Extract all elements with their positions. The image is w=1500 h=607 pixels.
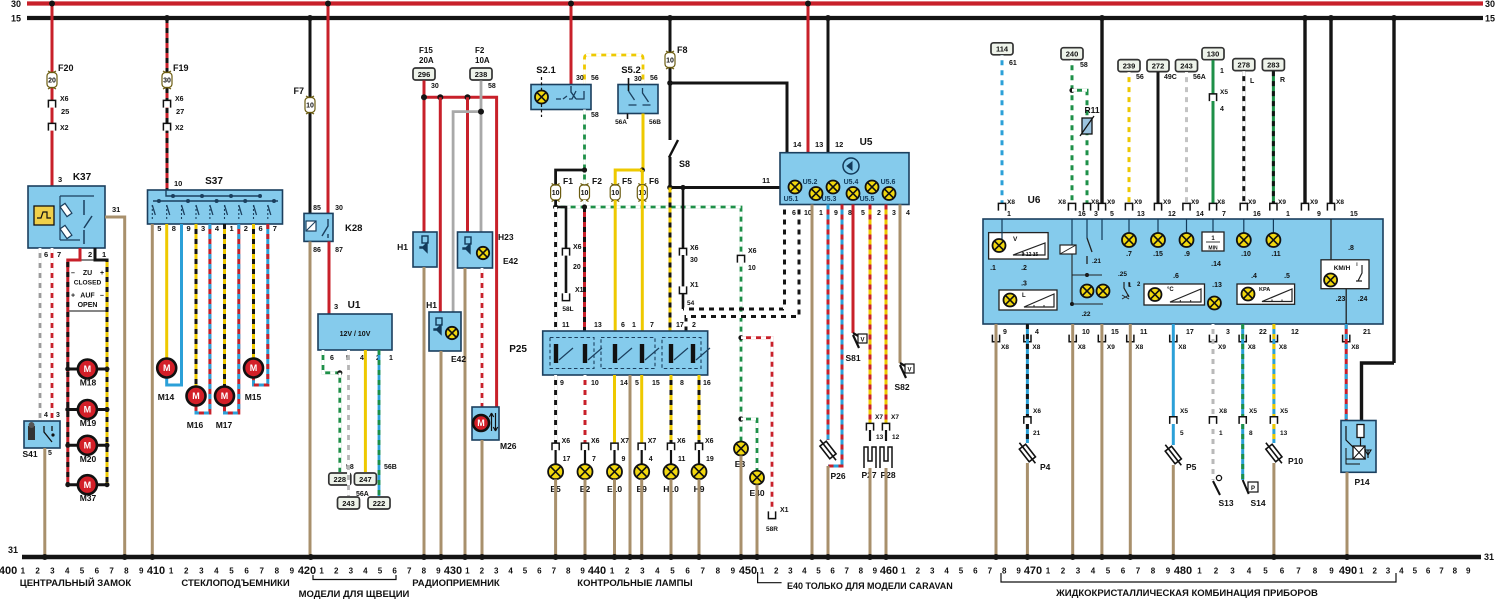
svg-text:30: 30	[690, 257, 698, 264]
lamp E10	[613, 375, 616, 443]
svg-text:6: 6	[830, 567, 835, 576]
svg-text:11: 11	[1140, 329, 1148, 336]
svg-text:F20: F20	[58, 63, 74, 73]
svg-text:H1: H1	[426, 300, 437, 310]
svg-text:X9: X9	[1248, 199, 1256, 206]
fuse F20	[47, 71, 57, 89]
svg-text:1: 1	[102, 250, 106, 259]
svg-text:E42: E42	[503, 256, 518, 266]
lamp .13	[1208, 297, 1221, 310]
svg-text:56: 56	[1136, 74, 1144, 81]
svg-text:1: 1	[819, 210, 823, 217]
svg-text:3: 3	[930, 567, 935, 576]
switch S8	[669, 140, 678, 158]
svg-text:P26: P26	[830, 471, 845, 481]
U5 indicator lamps	[789, 181, 802, 194]
svg-text:14: 14	[1196, 211, 1204, 218]
svg-text:5: 5	[1180, 430, 1184, 437]
svg-text:S14: S14	[1250, 498, 1265, 508]
svg-text:X8: X8	[1007, 199, 1015, 206]
svg-text:F2: F2	[475, 46, 485, 55]
svg-text:X6: X6	[690, 245, 699, 252]
svg-text:480: 480	[1174, 565, 1192, 577]
svg-text:1: 1	[1046, 567, 1051, 576]
bracket E40 caravan	[758, 572, 782, 583]
svg-text:U5.3: U5.3	[822, 196, 837, 203]
svg-text:ЦЕНТРАЛЬНЫЙ ЗАМОК: ЦЕНТРАЛЬНЫЙ ЗАМОК	[20, 577, 132, 589]
svg-text:49C: 49C	[1164, 74, 1177, 81]
svg-text:9: 9	[1466, 567, 1471, 576]
wire S37 pin8 to M14	[165, 224, 168, 359]
svg-text:X9: X9	[1134, 199, 1142, 206]
svg-text:17: 17	[1186, 329, 1194, 336]
svg-text:7: 7	[1439, 567, 1444, 576]
svg-text:P28: P28	[880, 470, 895, 480]
connector X2 (F20)	[48, 123, 55, 130]
svg-text:U6: U6	[1028, 195, 1041, 206]
svg-text:8: 8	[275, 567, 280, 576]
svg-text:K28: K28	[345, 223, 362, 234]
svg-text:10: 10	[611, 190, 619, 197]
svg-text:X9: X9	[1278, 199, 1286, 206]
svg-text:5: 5	[523, 567, 528, 576]
svg-text:4: 4	[1399, 567, 1404, 576]
svg-text:X9: X9	[1218, 344, 1226, 351]
svg-text:56: 56	[591, 75, 599, 82]
svg-text:P4: P4	[1040, 462, 1051, 472]
wire H1 to ground	[423, 267, 426, 557]
svg-text:РАДИОПРИЕМНИК: РАДИОПРИЕМНИК	[412, 578, 500, 589]
svg-text:1: 1	[169, 567, 174, 576]
svg-text:10: 10	[306, 103, 314, 110]
svg-text:2: 2	[774, 567, 779, 576]
wire F7 feed	[309, 18, 312, 213]
svg-text:X9: X9	[1107, 199, 1115, 206]
svg-text:4: 4	[906, 210, 910, 217]
svg-text:V: V	[860, 338, 864, 344]
svg-text:M15: M15	[245, 392, 262, 402]
svg-text:6: 6	[44, 250, 48, 259]
svg-text:X8: X8	[1135, 344, 1143, 351]
svg-text:СТЕКЛОПОДЪЕМНИКИ: СТЕКЛОПОДЪЕМНИКИ	[181, 578, 289, 589]
svg-text:X8: X8	[1279, 344, 1287, 351]
wire K28 pin87 to U1	[328, 242, 331, 315]
svg-text:M: M	[477, 418, 485, 428]
svg-text:X6: X6	[677, 438, 686, 445]
svg-text:7: 7	[109, 567, 114, 576]
wire tag 130 to U6 pin7	[1202, 48, 1224, 60]
svg-text:X9: X9	[1163, 199, 1171, 206]
svg-text:20: 20	[48, 78, 56, 85]
svg-text:9: 9	[1317, 211, 1321, 218]
svg-text:3: 3	[1094, 211, 1098, 218]
svg-text:56B: 56B	[649, 119, 661, 126]
wire U1 pin4	[364, 350, 367, 472]
wire F2 (radio)	[480, 81, 483, 233]
svg-text:400: 400	[0, 565, 17, 577]
wire E42 to ground	[440, 351, 443, 557]
svg-text:X2: X2	[60, 125, 69, 132]
svg-text:1: 1	[1286, 211, 1290, 218]
svg-text:AUF: AUF	[80, 293, 95, 300]
wire S37 pin7 / M15 loop	[254, 224, 268, 385]
wire U1 pin6	[323, 350, 340, 373]
antenna motor M26	[472, 407, 499, 440]
switch S81	[853, 333, 860, 348]
svg-text:X6: X6	[748, 248, 757, 255]
svg-text:.9: .9	[1184, 251, 1190, 258]
wire U6 pin11 to ground	[1129, 324, 1132, 557]
svg-text:U5.2: U5.2	[803, 179, 818, 186]
svg-text:4: 4	[944, 567, 949, 576]
fuse F5	[610, 184, 620, 202]
wire bus30 to U5 pin13	[807, 4, 810, 153]
voltage transformer U1 12V/10V	[318, 314, 392, 350]
svg-text:F8: F8	[677, 45, 688, 55]
svg-text:9: 9	[622, 456, 626, 463]
svg-text:ЖИДКОКРИСТАЛЛИЧЕСКАЯ КОМБИНАЦИ: ЖИДКОКРИСТАЛЛИЧЕСКАЯ КОМБИНАЦИЯ ПРИБОРОВ	[1055, 588, 1318, 599]
svg-text:S37: S37	[205, 176, 223, 187]
svg-text:2: 2	[88, 250, 92, 259]
svg-text:5: 5	[1110, 211, 1114, 218]
svg-text:.10: .10	[1241, 251, 1251, 258]
relay K28	[327, 4, 330, 214]
tag 243	[338, 497, 360, 509]
wire U5 pin3 to P28	[885, 205, 888, 425]
svg-text:H1: H1	[397, 242, 408, 252]
svg-text:450: 450	[739, 565, 757, 577]
svg-text:8: 8	[124, 567, 129, 576]
bus 30 (battery +)	[27, 1, 1483, 5]
svg-text:P14: P14	[1354, 477, 1369, 487]
svg-text:E42: E42	[451, 354, 466, 364]
svg-text:7: 7	[700, 567, 705, 576]
svg-text:15: 15	[1485, 14, 1495, 24]
svg-text:L: L	[1022, 293, 1026, 299]
svg-text:F5: F5	[622, 176, 632, 186]
relay .21/.22/.25 cluster	[1071, 219, 1073, 245]
svg-text:P25: P25	[509, 344, 527, 355]
wire U5 pin5 to S81	[852, 205, 855, 334]
wire tag 278 to U6 pin16b	[1233, 59, 1255, 71]
svg-text:M37: M37	[80, 493, 97, 503]
motor M17	[215, 387, 234, 406]
svg-text:M: M	[84, 405, 92, 415]
svg-text:+: +	[100, 270, 104, 277]
svg-text:U5.1: U5.1	[784, 196, 799, 203]
svg-text:12: 12	[1291, 329, 1299, 336]
wire F15 distribution	[423, 81, 426, 233]
frame ZU/CLOSED AUF/OPEN	[67, 260, 108, 311]
svg-text:9: 9	[580, 567, 585, 576]
svg-text:4: 4	[44, 412, 48, 419]
wire H23 to ground	[464, 268, 467, 557]
svg-text:58R: 58R	[766, 526, 778, 533]
svg-text:S41: S41	[22, 449, 37, 459]
svg-text:6: 6	[792, 210, 796, 217]
wire F19 feed	[166, 18, 169, 190]
temp sensor P4	[1016, 440, 1038, 465]
svg-text:1: 1	[901, 567, 906, 576]
svg-text:238: 238	[475, 70, 488, 79]
svg-text:1: 1	[1219, 430, 1223, 437]
svg-text:86: 86	[313, 247, 321, 254]
svg-text:8: 8	[1453, 567, 1458, 576]
svg-text:X6: X6	[175, 96, 184, 103]
svg-text:4: 4	[214, 567, 219, 576]
svg-text:3: 3	[334, 302, 338, 311]
svg-text:19: 19	[706, 456, 714, 463]
speaker H1 front	[413, 232, 437, 267]
svg-text:20: 20	[573, 264, 581, 271]
svg-text:7: 7	[552, 567, 557, 576]
motor M37	[68, 483, 107, 486]
svg-text:F2: F2	[592, 176, 602, 186]
svg-text:3: 3	[1386, 567, 1391, 576]
fuse F7	[305, 96, 315, 114]
wire U6 pin4 to P4	[1026, 324, 1029, 416]
svg-text:S8: S8	[679, 159, 690, 169]
tag 228	[329, 473, 351, 485]
svg-text:9 12 15: 9 12 15	[1022, 252, 1039, 258]
svg-text:30: 30	[1485, 0, 1495, 9]
connector X6 (F19)	[163, 100, 170, 107]
svg-text:7: 7	[57, 250, 61, 259]
connector X6 (F20)	[48, 100, 55, 107]
svg-text:440: 440	[588, 565, 606, 577]
wire S37 pin4 / M16 loop	[196, 224, 210, 413]
svg-text:9: 9	[1003, 329, 1007, 336]
svg-text:30: 30	[634, 76, 642, 83]
svg-text:6: 6	[244, 567, 249, 576]
svg-text:2: 2	[692, 322, 696, 329]
svg-text:X5: X5	[1180, 408, 1188, 415]
svg-text:M20: M20	[80, 454, 97, 464]
wire U5 pin1 to ground	[811, 205, 814, 558]
wire U1 pin2	[378, 350, 381, 496]
svg-text:X1: X1	[575, 287, 584, 294]
svg-text:8: 8	[422, 567, 427, 576]
svg-text:X8: X8	[1248, 344, 1256, 351]
coolant sensor P26	[817, 437, 839, 462]
svg-text:P10: P10	[1288, 456, 1303, 466]
svg-text:2: 2	[1061, 567, 1066, 576]
svg-text:5: 5	[670, 567, 675, 576]
gauge .1/.2 voltmeter	[989, 233, 1049, 259]
svg-text:470: 470	[1024, 565, 1042, 577]
svg-text:OPEN: OPEN	[78, 302, 98, 309]
svg-text:2: 2	[184, 567, 189, 576]
svg-text:9: 9	[834, 210, 838, 217]
instrument cluster U6	[983, 219, 1383, 324]
wire K37 pin1 (open) rail	[95, 248, 107, 268]
svg-text:X8: X8	[1351, 344, 1359, 351]
fuse F2 (instr)	[580, 184, 590, 202]
svg-text:.1: .1	[990, 265, 996, 272]
wire P25 pin5 to ground	[629, 375, 632, 557]
svg-text:X8: X8	[1001, 344, 1009, 351]
svg-text:283: 283	[1267, 60, 1280, 69]
svg-text:10: 10	[591, 380, 599, 387]
svg-text:X5: X5	[1220, 89, 1228, 96]
wire S37 pin3 to M16	[195, 224, 198, 387]
svg-text:13: 13	[1137, 211, 1145, 218]
svg-text:U1: U1	[348, 300, 361, 311]
wire tag 272 to U6 pin12	[1147, 60, 1169, 72]
svg-text:X7: X7	[621, 438, 630, 445]
oil pressure sensor P5	[1162, 442, 1184, 467]
svg-text:X8: X8	[1336, 199, 1344, 206]
svg-text:L: L	[1250, 78, 1255, 85]
connector X7 (P27)	[866, 423, 873, 430]
svg-text:7: 7	[844, 567, 849, 576]
svg-text:25: 25	[61, 107, 69, 116]
svg-text:M: M	[84, 364, 92, 374]
svg-text:P: P	[1251, 486, 1255, 492]
svg-text:11: 11	[762, 176, 770, 185]
svg-text:5: 5	[861, 210, 865, 217]
svg-text:13: 13	[594, 322, 602, 329]
svg-text:272: 272	[1152, 61, 1165, 70]
svg-text:X6: X6	[60, 96, 69, 103]
svg-text:X5: X5	[1249, 408, 1257, 415]
svg-text:2: 2	[1372, 567, 1377, 576]
wire U6 pin9 to ground	[995, 324, 998, 557]
svg-text:–: –	[71, 270, 75, 277]
wire U6 pin22 to S14	[1241, 324, 1244, 416]
connector stub X6-30 / X1-54	[682, 188, 685, 251]
svg-text:MIN: MIN	[1208, 246, 1218, 252]
svg-text:15: 15	[1111, 329, 1119, 336]
gauge .6 coolant temp	[1144, 284, 1205, 305]
wire S41 to ground	[43, 448, 46, 557]
motor M16	[187, 387, 206, 406]
svg-text:3: 3	[56, 412, 60, 419]
svg-text:5: 5	[635, 380, 639, 387]
svg-text:9: 9	[1329, 567, 1334, 576]
svg-text:2: 2	[35, 567, 40, 576]
fuse F6	[637, 184, 647, 202]
svg-text:X8: X8	[1178, 344, 1186, 351]
svg-text:13: 13	[1280, 430, 1288, 437]
svg-text:85: 85	[313, 205, 321, 212]
svg-text:4: 4	[65, 567, 70, 576]
svg-text:15: 15	[652, 380, 660, 387]
svg-text:X8: X8	[1078, 344, 1086, 351]
wire S8 to P25 pin17	[669, 188, 672, 332]
svg-text:228: 228	[334, 475, 347, 484]
svg-text:5: 5	[1413, 567, 1418, 576]
fuse F1	[551, 184, 561, 202]
wire tag 283 to U6 pin1b	[1262, 59, 1284, 71]
svg-text:10: 10	[666, 58, 674, 65]
svg-text:4: 4	[508, 567, 513, 576]
resistor R11	[1072, 90, 1087, 203]
svg-text:8: 8	[1002, 567, 1007, 576]
svg-text:11: 11	[678, 456, 686, 463]
connector X2 (F19)	[163, 123, 170, 130]
svg-text:4: 4	[649, 456, 653, 463]
svg-text:7: 7	[407, 567, 412, 576]
connector X7 (P28)	[882, 423, 889, 430]
svg-text:M: M	[84, 480, 92, 490]
svg-text:X9: X9	[1107, 344, 1115, 351]
svg-text:6: 6	[685, 567, 690, 576]
svg-text:7: 7	[1222, 211, 1226, 218]
svg-text:7: 7	[259, 567, 264, 576]
svg-text:M18: M18	[80, 378, 97, 388]
svg-text:239: 239	[1123, 61, 1136, 70]
lamp H10	[670, 375, 673, 443]
wire U6 pin3 to S13	[1212, 324, 1215, 416]
svg-text:V: V	[907, 368, 911, 374]
svg-text:2: 2	[1214, 567, 1219, 576]
node to 58R	[738, 335, 743, 340]
svg-text:1: 1	[1220, 68, 1224, 75]
svg-text:4: 4	[655, 567, 660, 576]
svg-text:2: 2	[334, 567, 339, 576]
svg-text:10A: 10A	[475, 56, 490, 65]
fuel sender P28	[885, 430, 887, 441]
fuel sender P27	[869, 430, 871, 441]
wire M26 to ground	[481, 440, 484, 557]
wire bus15 to U6 pin5	[1100, 18, 1103, 203]
svg-text:1: 1	[230, 224, 234, 233]
lamp E9	[640, 375, 643, 443]
svg-text:X7: X7	[875, 414, 883, 421]
svg-text:X2: X2	[175, 125, 184, 132]
svg-text:U5.5: U5.5	[860, 196, 875, 203]
svg-text:6: 6	[330, 355, 334, 362]
svg-text:8: 8	[566, 567, 571, 576]
svg-text:3: 3	[892, 210, 896, 217]
svg-text:22: 22	[1259, 329, 1267, 336]
svg-text:4: 4	[360, 355, 364, 362]
svg-text:114: 114	[996, 45, 1009, 54]
svg-text:243: 243	[342, 499, 355, 508]
svg-text:9: 9	[187, 224, 191, 233]
svg-text:1: 1	[760, 567, 765, 576]
svg-text:X8: X8	[1217, 199, 1225, 206]
bus 31 (ground)	[22, 555, 1481, 560]
wire U6 pin15 to ground	[1100, 324, 1103, 557]
lamp E40	[750, 471, 764, 485]
svg-text:3: 3	[50, 567, 55, 576]
svg-text:5: 5	[229, 567, 234, 576]
svg-text:M: M	[163, 363, 171, 373]
speedometer .8 KM/H	[1330, 219, 1332, 275]
svg-text:296: 296	[418, 70, 431, 79]
svg-text:5: 5	[48, 450, 52, 457]
svg-text:9: 9	[290, 567, 295, 576]
svg-text:56A: 56A	[1193, 74, 1206, 81]
svg-text:5: 5	[157, 224, 161, 233]
svg-text:4: 4	[1220, 106, 1224, 113]
svg-text:F7: F7	[293, 86, 304, 96]
svg-text:3: 3	[349, 567, 354, 576]
fuse F8	[665, 51, 675, 69]
svg-text:CLOSED: CLOSED	[74, 280, 102, 287]
wire U6 pin21 to P14	[1345, 324, 1348, 421]
svg-text:7: 7	[650, 322, 654, 329]
svg-text:.6: .6	[1173, 273, 1179, 280]
svg-text:M26: M26	[500, 441, 517, 451]
svg-text:1: 1	[1007, 211, 1011, 218]
svg-text:20A: 20A	[419, 56, 434, 65]
wire F8 feed	[669, 18, 672, 140]
svg-text:МОДЕЛИ ДЛЯ ЩВЕЦИИ: МОДЕЛИ ДЛЯ ЩВЕЦИИ	[299, 589, 410, 600]
svg-text:.15: .15	[1153, 251, 1163, 258]
